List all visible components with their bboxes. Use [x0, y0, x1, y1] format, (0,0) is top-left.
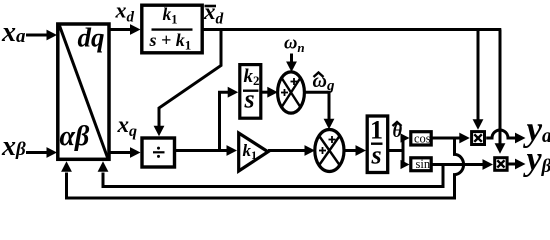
- svg-text:cos: cos: [414, 131, 431, 145]
- input label x_beta: [1, 131, 26, 162]
- wire: tap up to k2/s: [220, 92, 230, 150]
- label y_beta: [523, 141, 550, 178]
- wire: x_d to filter: [111, 28, 133, 31]
- wire: sin to multiplier2: [432, 163, 484, 166]
- gain k1 triangle: [239, 133, 268, 171]
- label x_q: [117, 112, 138, 140]
- wire: theta branch to cos and sin: [388, 138, 403, 165]
- wire: x_bar_d down into multiplier2 (bus corner): [499, 30, 502, 145]
- block: filter k1/(s+k1): [142, 4, 202, 53]
- multiplier 1 (x box): [472, 132, 485, 145]
- label theta_hat: [393, 122, 403, 142]
- block: dq / alpha-beta transform: [58, 23, 109, 160]
- wire: cos feedback (drop, hop over sin wire, bottom run, up into transform): [67, 138, 464, 198]
- block: integrator k2/s: [240, 65, 261, 119]
- wire: x_q to divider: [111, 151, 133, 154]
- multiplier 2 (x box): [495, 158, 507, 171]
- svg-text:s: s: [244, 85, 255, 114]
- block: cos: [411, 131, 431, 145]
- wire: y_beta output: [508, 163, 517, 166]
- wire: k1 to summer2: [268, 149, 306, 152]
- label y_a: [523, 110, 550, 149]
- wire: y_a output with hop over vertical: [486, 130, 516, 138]
- wire: divider output to k1 gain: [176, 149, 229, 152]
- wire: branch from bus down to divider: [159, 30, 221, 128]
- svg-text:dq: dq: [78, 23, 105, 53]
- wire: sin feedback (drop, bottom run, up into transform): [103, 165, 443, 187]
- wire: k2/s to summer1: [262, 91, 269, 94]
- label x_d: [115, 0, 135, 26]
- label omega_n: [284, 34, 305, 56]
- wire: x_bar_d down into multiplier1: [477, 30, 480, 121]
- block: integrator 1/s: [367, 116, 388, 173]
- wire: omega_n arrow into summer1: [290, 54, 293, 63]
- svg-text:αβ: αβ: [60, 121, 90, 152]
- wire: x_bar_d bus (top): [203, 28, 502, 31]
- wire: cos to multiplier1: [432, 137, 461, 140]
- summer 2: [315, 130, 344, 172]
- label x_bar_d: [203, 0, 224, 28]
- wire: x_beta input arrow: [26, 151, 48, 154]
- wire: summer2 to integrator 1/s: [344, 149, 357, 152]
- input label x_a: [1, 17, 26, 48]
- block: sin: [411, 157, 431, 171]
- block: divider: [142, 138, 175, 167]
- summer 1 (with omega_n): [278, 72, 305, 113]
- svg-text:sin: sin: [416, 157, 431, 171]
- wire: omega_hat_g to summer2: [305, 92, 329, 119]
- wire: x_a input arrow: [26, 34, 48, 37]
- svg-text:s: s: [371, 141, 382, 170]
- label omega_hat_g: [313, 70, 335, 94]
